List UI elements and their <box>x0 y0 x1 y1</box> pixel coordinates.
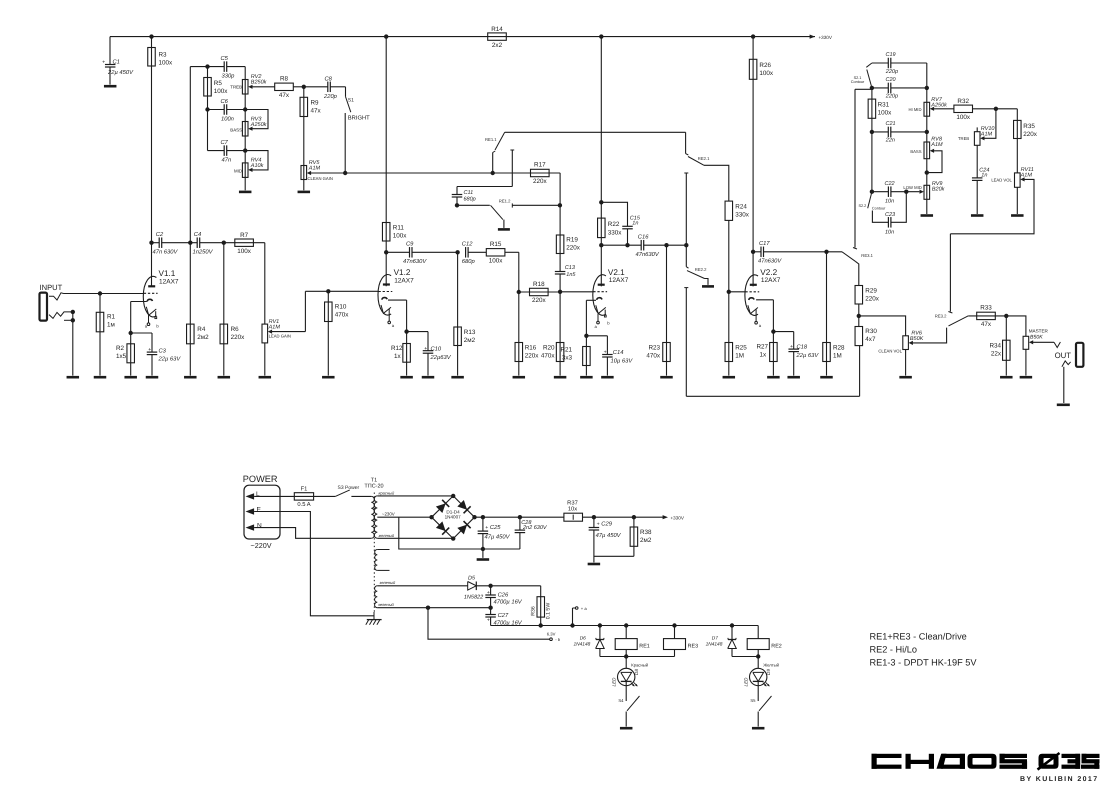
node LED D9 tap <box>756 654 760 658</box>
svg-text:S5: S5 <box>750 698 756 703</box>
svg-text:BY KULIBIN 2017: BY KULIBIN 2017 <box>1020 776 1098 783</box>
svg-text:RE2.1: RE2.1 <box>698 156 710 161</box>
tube V2.2 12AX7 <box>745 268 781 328</box>
node C22 right <box>904 190 908 194</box>
wire RV7 column <box>926 63 928 214</box>
potentiometer RV4 MID <box>242 163 248 178</box>
svg-text:RE2.2: RE2.2 <box>695 267 707 272</box>
potentiometer RV7 HI MID <box>924 102 930 116</box>
ground R25 <box>723 376 736 379</box>
svg-text:R18: R18 <box>533 281 545 288</box>
svg-text:220x: 220x <box>533 178 548 185</box>
node R33 right <box>1004 314 1008 318</box>
potentiometer RV3 BASS <box>242 122 248 137</box>
wire V1.1 cathode <box>131 301 147 303</box>
potentiometer RV8 BASS <box>924 142 930 159</box>
svg-text:Красный: Красный <box>631 663 649 668</box>
node D7 top <box>730 623 734 627</box>
ground T1 chassis <box>373 612 375 620</box>
svg-text:LEAD VOL: LEAD VOL <box>991 178 1012 183</box>
svg-text:1n250V: 1n250V <box>193 249 214 256</box>
svg-text:12AX7: 12AX7 <box>761 277 781 284</box>
relay RE2 <box>757 626 759 639</box>
tube V1.2 12AX7 <box>378 268 414 328</box>
potentiometer RV2 TREB <box>242 80 248 95</box>
svg-text:D9: D9 <box>766 669 771 675</box>
LED D8 red <box>625 657 627 669</box>
resistor R28 <box>826 252 828 376</box>
wire C1 feed <box>109 37 111 65</box>
svg-text:R12: R12 <box>391 345 403 352</box>
svg-text:1x: 1x <box>394 353 402 360</box>
resistor R24 <box>725 201 733 220</box>
wire clean bus to RE2.1 <box>505 131 686 133</box>
svg-text:3x3: 3x3 <box>562 355 573 362</box>
svg-text:1n: 1n <box>981 172 987 178</box>
node rail junction R26 <box>751 34 755 38</box>
svg-text:+: + <box>487 590 490 596</box>
wire to RV6 top <box>859 316 906 336</box>
svg-text:22µ 450V: 22µ 450V <box>107 69 134 76</box>
node V2.1 cathode junction <box>584 334 588 338</box>
svg-text:22µ 63V: 22µ 63V <box>158 356 182 363</box>
svg-text:47µ 450V: 47µ 450V <box>596 532 622 539</box>
svg-text:RE1-3 - DPDT HK-19F 5V: RE1-3 - DPDT HK-19F 5V <box>870 657 978 667</box>
svg-text:RE1: RE1 <box>639 643 650 649</box>
node heater tap <box>426 606 430 610</box>
resistor R2 <box>130 333 132 376</box>
wire V2.2 cathode <box>756 299 773 301</box>
svg-text:1N4148: 1N4148 <box>574 641 591 647</box>
svg-text:1N5822: 1N5822 <box>464 595 483 601</box>
ground R20 <box>554 376 567 379</box>
resistor R4 <box>189 243 191 376</box>
capacitor C2 <box>152 242 160 244</box>
node C7 right <box>243 148 247 152</box>
svg-text:R34: R34 <box>989 342 1001 349</box>
svg-text:R11: R11 <box>393 225 405 232</box>
connector POWER inlet <box>243 474 280 550</box>
resistor R16 <box>518 292 520 376</box>
connector OUT jack <box>1054 342 1083 367</box>
wire RV2 wiper to R8 <box>250 86 275 88</box>
svg-text:+: + <box>485 525 488 531</box>
svg-text:RE1+RE3 - Clean/Drive: RE1+RE3 - Clean/Drive <box>870 631 967 641</box>
ground R10 <box>322 376 335 379</box>
wire OUT sleeve to ground <box>1063 367 1065 403</box>
capacitor C11 <box>452 194 463 196</box>
resistor R7 <box>224 242 265 244</box>
svg-text:47µ 450V: 47µ 450V <box>485 534 511 541</box>
svg-text:2x2: 2x2 <box>492 42 503 49</box>
node +a tap <box>570 623 574 627</box>
ground RV1 <box>259 376 272 379</box>
svg-text:1м: 1м <box>107 321 115 328</box>
node R18 left <box>517 290 521 294</box>
svg-text:LED: LED <box>743 677 748 687</box>
capacitor C10 <box>407 331 428 333</box>
svg-text:R9: R9 <box>311 100 320 107</box>
svg-text:1x5: 1x5 <box>116 353 127 360</box>
resistor R33 <box>968 315 1006 317</box>
relay RE1 <box>625 626 627 639</box>
wire B+ rail <box>475 516 564 518</box>
capacitor C5 <box>223 61 225 72</box>
svg-text:+: + <box>790 344 793 350</box>
resistor R23 <box>666 245 668 375</box>
capacitor C12 <box>465 247 467 257</box>
svg-text:R36: R36 <box>530 606 536 616</box>
svg-text:22x: 22x <box>991 350 1002 357</box>
capacitor C7 <box>208 150 225 152</box>
ground R6 <box>218 376 231 379</box>
svg-text:12AX7: 12AX7 <box>159 278 179 285</box>
node R28 top <box>824 250 828 254</box>
capacitor C21 <box>872 131 888 133</box>
svg-text:ТПС-20: ТПС-20 <box>364 484 383 490</box>
svg-text:C19: C19 <box>886 52 896 58</box>
node +330V arrow top <box>810 35 815 39</box>
ground R13 <box>451 376 464 379</box>
svg-text:BRIGHT: BRIGHT <box>348 115 370 122</box>
node rail junction V2.1 column <box>599 34 603 38</box>
svg-text:C12: C12 <box>462 241 473 248</box>
tube V1.1 12AX7 <box>143 269 179 328</box>
resistor R12 <box>406 332 408 376</box>
svg-text:220x: 220x <box>1023 131 1038 138</box>
node bridge bottom <box>451 536 455 540</box>
svg-text:C18: C18 <box>797 343 808 350</box>
wire relay group 2 bottom <box>732 656 758 658</box>
capacitor C6 <box>208 109 225 111</box>
svg-text:B50K: B50K <box>910 336 924 342</box>
wire V1.2 cathode <box>388 299 407 301</box>
svg-text:100n: 100n <box>221 116 234 123</box>
svg-text:47x: 47x <box>279 92 290 99</box>
ground tone stack <box>239 191 252 194</box>
node C20 right <box>925 86 929 90</box>
capacitor C28 <box>519 517 521 530</box>
wire RE2.1 lower contact link <box>684 172 688 174</box>
node R6 top <box>222 241 226 245</box>
switch RE1.1 <box>492 153 494 174</box>
svg-text:0.1 5W: 0.1 5W <box>546 603 552 620</box>
capacitor C8 <box>304 86 328 88</box>
svg-text:TREB: TREB <box>958 136 969 141</box>
ground R12 <box>400 376 413 379</box>
svg-text:V1.1: V1.1 <box>159 269 176 278</box>
svg-text:R2: R2 <box>116 345 125 352</box>
svg-text:C25: C25 <box>490 524 501 531</box>
svg-text:R21: R21 <box>560 347 572 354</box>
svg-text:BASS: BASS <box>230 127 242 132</box>
svg-text:F1: F1 <box>301 486 308 492</box>
svg-text:C29: C29 <box>601 521 612 528</box>
svg-text:R14: R14 <box>491 26 503 33</box>
node LED D8 tap <box>624 654 628 658</box>
svg-text:220x: 220x <box>231 334 246 341</box>
switch RE2.1 <box>685 132 687 153</box>
svg-text:E: E <box>257 506 262 513</box>
svg-text:- b: - b <box>555 637 561 642</box>
connector INPUT jack <box>40 283 73 320</box>
svg-text:C9: C9 <box>406 241 414 248</box>
svg-text:+: + <box>102 59 105 65</box>
ground R2 <box>124 376 137 379</box>
potentiometer RV10 TREB <box>976 127 978 131</box>
svg-text:220x: 220x <box>566 245 581 252</box>
svg-text:47n: 47n <box>222 158 232 164</box>
svg-text:R19: R19 <box>566 237 578 244</box>
svg-text:L: L <box>256 491 260 498</box>
ground R23 <box>660 376 673 379</box>
svg-text:47n630V: 47n630V <box>403 258 427 265</box>
node C22 left <box>870 190 874 194</box>
svg-text:10n: 10n <box>885 198 894 204</box>
svg-text:R33: R33 <box>980 304 992 311</box>
node +330V arrow bottom <box>663 515 668 519</box>
wire 230V tap / bridge minus <box>377 516 431 518</box>
svg-text:D5: D5 <box>468 576 476 582</box>
node R29/R30 junction <box>857 314 861 318</box>
resistor R15 <box>486 249 505 256</box>
wire relay group 1 bottom <box>600 656 675 658</box>
ground C10 <box>422 376 435 379</box>
svg-text:R38: R38 <box>640 529 652 536</box>
svg-text:470x: 470x <box>335 312 350 319</box>
resistor R36 0.1 5W <box>540 586 542 626</box>
resistor R35 <box>1016 109 1018 173</box>
node R22 top <box>599 200 603 204</box>
svg-text:LED: LED <box>611 677 616 687</box>
node C6 left <box>205 107 209 111</box>
svg-text:LOW MID: LOW MID <box>903 185 921 190</box>
svg-text:C11: C11 <box>464 190 474 196</box>
svg-text:+: + <box>604 349 607 355</box>
svg-text:2м2: 2м2 <box>640 537 652 544</box>
resistor R9 <box>303 87 305 191</box>
svg-text:MASTER: MASTER <box>1029 328 1049 333</box>
wire V2.2 grid <box>729 291 745 293</box>
node R1 top <box>98 291 102 295</box>
svg-text:A1M: A1M <box>980 132 993 138</box>
svg-text:220p: 220p <box>885 69 898 75</box>
svg-text:R4: R4 <box>197 326 206 333</box>
svg-text:A1M: A1M <box>268 324 281 330</box>
node R32 right <box>994 107 998 111</box>
svg-text:S2.2: S2.2 <box>858 204 866 208</box>
ground R1 <box>94 376 107 379</box>
svg-text:100x: 100x <box>759 70 774 77</box>
wire R15 to R18/R16 <box>518 252 520 292</box>
node R19 column C11 wire <box>558 203 562 207</box>
svg-text:Contour: Contour <box>872 206 886 210</box>
switch S4 <box>625 686 627 701</box>
node V2.2 grid junction <box>727 290 731 294</box>
svg-text:RE3: RE3 <box>688 643 699 649</box>
svg-text:C8: C8 <box>325 75 333 82</box>
svg-text:+: + <box>597 521 600 527</box>
svg-text:D6: D6 <box>580 635 586 641</box>
svg-text:R28: R28 <box>833 344 845 351</box>
svg-text:R23: R23 <box>648 344 660 351</box>
svg-text:R1: R1 <box>107 313 116 320</box>
svg-text:INPUT: INPUT <box>40 283 63 292</box>
node C6 right <box>243 107 247 111</box>
svg-text:470x: 470x <box>541 352 556 359</box>
wire RV3 wiper bracket <box>245 110 268 129</box>
capacitor C27 <box>490 608 492 615</box>
ground S4 <box>620 727 633 730</box>
svg-text:10x: 10x <box>568 506 577 513</box>
svg-text:680p: 680p <box>462 258 476 265</box>
wire jack to ground <box>72 312 74 376</box>
svg-text:Contour: Contour <box>851 80 865 84</box>
resistor R14 <box>488 33 507 40</box>
wire yellow secondary to bridge <box>377 537 453 539</box>
node C28 top <box>518 515 522 519</box>
node rail junction V1.2 column <box>384 34 388 38</box>
resistor R34 <box>1005 316 1007 376</box>
wire red secondary to bridge <box>377 495 453 497</box>
wire C16 row <box>601 244 641 246</box>
svg-text:R27: R27 <box>757 343 769 350</box>
wire input grid <box>64 293 144 295</box>
svg-text:2м2: 2м2 <box>464 337 476 344</box>
svg-text:22µ63V: 22µ63V <box>430 354 452 361</box>
capacitor C4 <box>196 237 198 248</box>
capacitor C25 <box>482 517 484 531</box>
ground OUT jack <box>1057 403 1070 406</box>
capacitor C3 <box>147 351 158 353</box>
node RE1.1 junction <box>491 171 495 175</box>
svg-text:0.5 A: 0.5 A <box>297 501 310 508</box>
svg-text:12AX7: 12AX7 <box>609 277 629 284</box>
svg-text:47n 630V: 47n 630V <box>153 249 179 256</box>
capacitor C24 <box>972 177 983 179</box>
svg-text:CLEAN VOL: CLEAN VOL <box>878 349 902 354</box>
fuse F1 0.5A <box>294 495 335 497</box>
svg-text:1M: 1M <box>735 352 744 359</box>
LED D9 yellow <box>757 657 759 669</box>
diode D6 1N4148 <box>599 626 601 640</box>
node C29 top <box>592 515 596 519</box>
svg-text:CLEAN GAIN: CLEAN GAIN <box>308 176 333 181</box>
ground C18 <box>787 376 800 379</box>
resistor R30 <box>855 327 863 346</box>
svg-text:C20: C20 <box>886 77 897 83</box>
svg-text:R10: R10 <box>335 304 347 311</box>
capacitor C22 <box>872 191 889 193</box>
svg-text:C16: C16 <box>638 234 649 241</box>
potentiometer RV1 LEAD GAIN <box>264 243 266 324</box>
switch RE1.2 <box>457 204 490 206</box>
svg-text:2м2: 2м2 <box>197 334 209 341</box>
wire green heater <box>377 607 490 609</box>
switch S2.2 Contour <box>868 192 872 209</box>
svg-text:MID: MID <box>234 168 242 173</box>
svg-text:R8: R8 <box>280 76 289 83</box>
svg-text:LEAD GAIN: LEAD GAIN <box>269 334 291 339</box>
svg-text:470x: 470x <box>646 352 661 359</box>
node C12 junction <box>455 250 459 254</box>
svg-text:RE1.1: RE1.1 <box>485 137 497 142</box>
svg-text:C26: C26 <box>498 591 509 598</box>
wire L line <box>254 495 294 497</box>
svg-text:4x7: 4x7 <box>865 336 876 343</box>
resistor R31 <box>871 88 873 192</box>
svg-text:330x: 330x <box>735 211 750 218</box>
svg-text:330p: 330p <box>222 73 236 80</box>
wire V1.1 plate lead <box>151 243 153 287</box>
node bridge right <box>472 515 476 519</box>
capacitor C18 <box>773 331 793 333</box>
svg-text:A1M: A1M <box>930 142 943 148</box>
node C16 wire left <box>599 243 603 247</box>
svg-text:TREB: TREB <box>230 85 242 90</box>
capacitor C20 <box>872 87 888 89</box>
switch S1 BRIGHT <box>345 87 347 97</box>
wire N line <box>254 528 371 539</box>
svg-text:C13: C13 <box>565 265 576 271</box>
wire V1.2 grid <box>305 290 378 292</box>
potentiometer MASTER <box>1006 316 1026 336</box>
potentiometer RV11 LEAD VOL <box>1015 173 1021 187</box>
svg-text:1M: 1M <box>833 352 842 359</box>
wire 5V relay rail <box>491 625 759 627</box>
node C9 junction <box>384 250 388 254</box>
svg-text:A250k: A250k <box>930 102 947 108</box>
wire V2.1 cathode <box>586 299 596 301</box>
svg-text:C27: C27 <box>498 612 509 619</box>
capacitor C16 <box>640 240 642 251</box>
svg-text:A1M: A1M <box>1020 173 1033 179</box>
svg-text:R22: R22 <box>608 221 620 228</box>
svg-text:100x: 100x <box>237 248 252 255</box>
node RE1 top <box>624 623 628 627</box>
svg-text:V2.1: V2.1 <box>608 268 625 277</box>
resistor R5 <box>207 67 209 151</box>
ground R28 <box>820 376 833 379</box>
svg-text:C23: C23 <box>885 212 896 218</box>
svg-text:Желтый: Желтый <box>763 663 779 668</box>
wire RV10 to C24 <box>976 145 978 177</box>
svg-text:1x: 1x <box>760 351 768 358</box>
ground C14 <box>601 376 614 379</box>
wire R38 bottom <box>594 555 634 557</box>
svg-text:220p: 220p <box>323 93 338 100</box>
svg-text:6.3V: 6.3V <box>547 632 556 637</box>
svg-text:100x: 100x <box>956 114 971 121</box>
node R38 top <box>632 515 636 519</box>
svg-text:+: + <box>424 346 427 352</box>
svg-text:R30: R30 <box>865 328 877 335</box>
svg-text:R17: R17 <box>534 162 546 169</box>
wire RV8 wiper bracket <box>927 151 942 173</box>
svg-text:красный: красный <box>379 491 395 496</box>
svg-text:100x: 100x <box>159 60 174 67</box>
svg-text:C6: C6 <box>221 98 229 105</box>
svg-text:зеленый: зеленый <box>377 602 395 607</box>
ground RE1.2 <box>498 228 510 231</box>
switch S3 Power <box>335 490 350 497</box>
svg-text:RE2: RE2 <box>771 643 782 649</box>
capacitor C29 <box>593 517 595 527</box>
svg-text:R26: R26 <box>759 62 771 69</box>
svg-text:~230V: ~230V <box>382 511 395 516</box>
node jack tip <box>71 310 75 314</box>
svg-text:RE3.2: RE3.2 <box>935 313 947 318</box>
